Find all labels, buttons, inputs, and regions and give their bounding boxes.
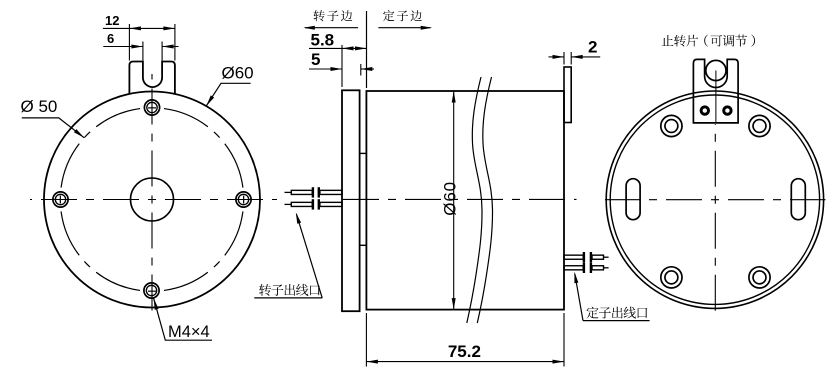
dimension 5.8 extension line — [341, 45, 343, 87]
bracket screw (left) — [701, 107, 708, 114]
rear mounting hole (lower-right) — [749, 267, 770, 288]
M4 tapped hole (left) — [53, 192, 68, 207]
label 转子边 (rotor side) — [314, 10, 325, 21]
front view horizontal centerline — [30, 199, 277, 201]
rear view vertical centerline — [714, 124, 716, 312]
rear view inner rim circle — [610, 95, 819, 304]
label 转子出线口 (rotor wire outlet) — [259, 284, 271, 296]
label 止转片(可调节) — [662, 35, 674, 46]
svg-text:12: 12 — [105, 13, 119, 28]
right slot (oval) — [791, 179, 805, 220]
stator outlet underline — [583, 320, 650, 322]
break line 2 — [477, 77, 492, 323]
stator side arrow — [378, 26, 432, 30]
rear mounting hole (lower-left) — [661, 267, 682, 288]
dimension 75.2 extension lines — [366, 313, 564, 367]
dimension 6 extension lines — [143, 42, 162, 61]
dimension 5 extension line — [360, 64, 362, 76]
dimension 5 line with arrows — [309, 67, 374, 71]
rotor side arrow — [303, 26, 358, 30]
left slot (oval) — [626, 179, 640, 220]
dimension 5.8 line with arrows — [309, 46, 367, 50]
svg-text:5.8: 5.8 — [311, 31, 335, 50]
hub upper edge — [360, 152, 367, 154]
stator wire pin 1 — [564, 252, 609, 262]
dimension 2 extension lines — [564, 52, 571, 65]
label 定子边 (stator side) — [383, 10, 394, 21]
front view outer circle Ø60 — [44, 92, 260, 308]
rotor flange (side view) — [342, 90, 360, 311]
stator outlet leader — [572, 271, 583, 320]
svg-text:Ø60: Ø60 — [222, 64, 254, 83]
svg-text:Ø 50: Ø 50 — [21, 97, 58, 116]
rotor anti-rotation fork (front view) — [129, 62, 175, 95]
dimension 2 line with arrows — [549, 55, 601, 59]
rotor wire pin 1 — [285, 187, 343, 197]
front view center bore circle — [131, 178, 174, 221]
bracket pin circle — [706, 60, 726, 80]
front view vertical centerline — [151, 74, 153, 318]
label 定子出线口 (stator wire outlet) — [587, 307, 599, 319]
anti-rotation tab (side view) — [564, 67, 571, 123]
dimension 75.2 line with arrows — [366, 360, 564, 364]
dimension 6 line with arrows — [103, 45, 178, 49]
svg-text:Ø60: Ø60 — [441, 181, 460, 216]
M4 tapped hole (right) — [236, 192, 251, 207]
dimension Ø60 line with arrows — [452, 91, 456, 310]
bracket screw (right) — [724, 107, 731, 114]
svg-text:6: 6 — [107, 31, 114, 46]
svg-text:5: 5 — [311, 50, 320, 69]
rotor outlet underline — [254, 297, 322, 299]
stator body (side view) — [366, 91, 564, 310]
bracket center line — [715, 71, 717, 123]
rear mounting hole (upper-left) — [661, 115, 682, 136]
rotor/stator boundary extension line — [366, 11, 368, 88]
rear view outer circle — [606, 91, 823, 308]
rear mounting hole (upper-right) — [749, 115, 770, 136]
M4 tapped hole (bottom) — [144, 283, 159, 298]
rotor wire pin 2 — [285, 199, 343, 209]
label M4×4 leader — [152, 298, 212, 341]
hub lower edge — [360, 244, 367, 246]
front view bolt circle Ø50 (dashed) — [60, 108, 243, 291]
rotor outlet leader — [294, 212, 322, 298]
dimension 12 extension lines — [129, 24, 175, 61]
M4 tapped hole (top) — [144, 100, 159, 115]
label Ø60 leader — [205, 83, 251, 107]
side view horizontal centerline — [343, 198, 577, 200]
svg-text:2: 2 — [588, 38, 597, 57]
label Ø50 leader — [22, 118, 86, 139]
svg-text:M4×4: M4×4 — [168, 323, 210, 341]
dimension 12 line with arrows — [103, 26, 175, 30]
anti-rotation bracket outline — [693, 59, 738, 123]
rear view horizontal centerline — [605, 199, 826, 201]
break line 1 — [467, 77, 482, 323]
stator wire pin 2 — [564, 263, 609, 273]
svg-text:75.2: 75.2 — [448, 342, 481, 361]
